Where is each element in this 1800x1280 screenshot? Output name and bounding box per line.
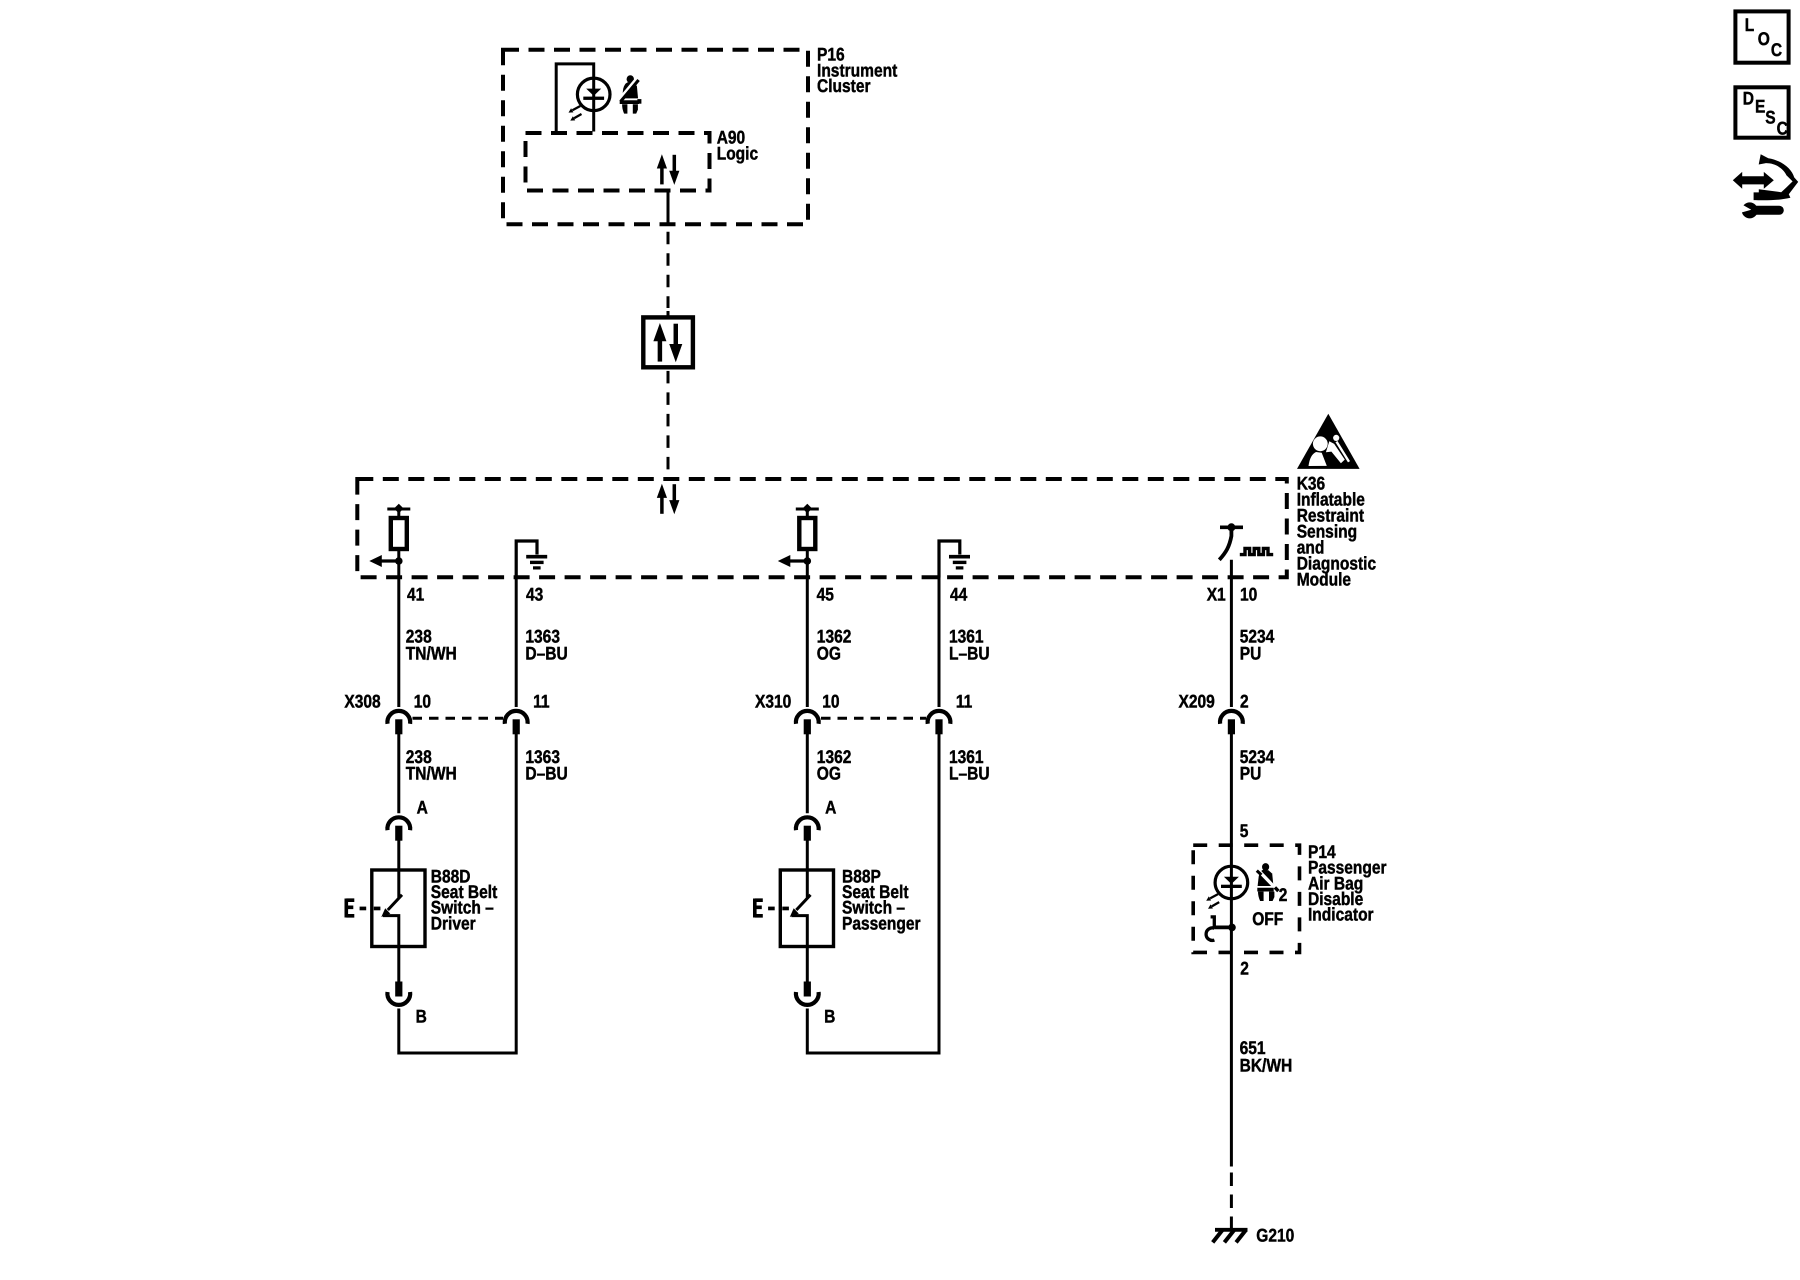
svg-text:X308: X308: [344, 691, 380, 712]
dashed wire to G210: [1230, 1173, 1233, 1230]
svg-text:2: 2: [1240, 958, 1249, 979]
wire 1363 D-BU X308-11 to loop: [399, 733, 516, 1053]
svg-text:Cluster: Cluster: [817, 75, 871, 96]
svg-text:A: A: [417, 797, 428, 818]
wire LED cathode into A90 logic: [592, 78, 595, 131]
svg-text:BK/WH: BK/WH: [1240, 1055, 1293, 1076]
ground symbol pin 43: [516, 541, 547, 578]
svg-text:G210: G210: [1256, 1224, 1294, 1245]
connector A of B88D: [387, 817, 410, 840]
connector X308 pin 11: [505, 711, 528, 734]
LOC nav box: [1735, 11, 1788, 62]
svg-text:10: 10: [1240, 583, 1257, 604]
splice hook symbol in P14: [1206, 917, 1236, 941]
seat belt switch B88D: [346, 870, 425, 947]
svg-text:X310: X310: [755, 691, 791, 712]
svg-text:41: 41: [407, 583, 424, 604]
serial data wire dashed P16 to gateway: [667, 232, 670, 308]
svg-text:10: 10: [414, 691, 431, 712]
serial data arrows in A90: [657, 154, 680, 185]
connector B of B88D: [387, 982, 410, 1005]
svg-text:Driver: Driver: [431, 912, 476, 933]
svg-text:Passenger: Passenger: [842, 912, 921, 933]
P14 passenger air bag disable indicator dashed box: [1193, 845, 1299, 952]
wire A90 to P16 edge solid: [667, 191, 670, 226]
serial data wire dashed gateway to K36: [667, 371, 670, 478]
belt disable icon with slash: [1257, 863, 1279, 901]
wire conn A to B88P: [806, 840, 809, 870]
svg-text:O: O: [1758, 28, 1770, 49]
svg-text:B: B: [416, 1006, 427, 1027]
wire 651 BK/WH P14 to ground: [1230, 954, 1233, 1167]
wire 1361 L-BU pin44 to X310-11: [938, 578, 941, 708]
svg-text:Module: Module: [1297, 568, 1351, 589]
ground G210: [1213, 1230, 1248, 1243]
seat belt indicator LED: [569, 78, 611, 121]
connector X310 pin 10: [796, 711, 819, 734]
wire 1362 OG X310-10 to conn A: [806, 733, 809, 813]
seat belt telltale icon: [619, 75, 642, 113]
connector mating dashed line X310: [821, 717, 926, 720]
wire loop from LED anode into A90 logic: [556, 64, 594, 132]
svg-text:10: 10: [822, 691, 839, 712]
serial data arrows in K36: [657, 484, 680, 515]
svg-text:L–BU: L–BU: [949, 643, 990, 664]
wire through LED to box bottom: [1230, 866, 1233, 954]
svg-text:L: L: [1745, 14, 1754, 35]
wire 5234 PU X209-2 to P14: [1230, 733, 1233, 866]
wire 5234 PU X1-10 to X209-2: [1230, 560, 1233, 707]
passenger belt sense driver pin 45: [778, 504, 819, 567]
svg-text:S: S: [1765, 106, 1775, 127]
seat belt switch B88P: [755, 870, 834, 947]
svg-text:X1: X1: [1207, 583, 1226, 604]
wire B88P to conn B: [806, 947, 809, 984]
svg-text:E: E: [1755, 95, 1765, 116]
svg-text:Indicator: Indicator: [1308, 904, 1374, 925]
DESC nav box: [1735, 87, 1788, 138]
svg-text:11: 11: [956, 691, 972, 712]
instrument cluster P16 dashed box: [503, 50, 808, 225]
jump navigation icon arrow and wrench: [1733, 154, 1798, 218]
svg-text:B: B: [824, 1006, 835, 1027]
svg-text:D–BU: D–BU: [525, 643, 567, 664]
logic module A90 dashed box: [526, 133, 710, 191]
svg-text:Logic: Logic: [717, 142, 758, 163]
wire 1363 D-BU pin43 to X308-11: [515, 578, 518, 708]
svg-text:D–BU: D–BU: [525, 763, 567, 784]
svg-text:X209: X209: [1178, 691, 1214, 712]
svg-text:OG: OG: [817, 643, 841, 664]
wire 238 TN/WH X308-10 to conn A: [397, 733, 400, 813]
connector X310 pin 11: [928, 711, 951, 734]
connector X209 pin 2: [1220, 711, 1243, 734]
wire 238 TN/WH pin41 to X308-10: [397, 561, 400, 707]
svg-text:45: 45: [817, 583, 834, 604]
airbag warning triangle: [1297, 414, 1360, 469]
svg-text:OFF: OFF: [1252, 908, 1283, 929]
wire conn A to B88D: [397, 840, 400, 870]
connector A of B88P: [796, 817, 819, 840]
connector X308 pin 10: [387, 711, 410, 734]
svg-text:PU: PU: [1240, 763, 1262, 784]
wire 1362 OG pin45 to X310-10: [806, 561, 809, 707]
ground symbol pin 44: [939, 541, 970, 578]
svg-text:PU: PU: [1240, 643, 1262, 664]
wire B88D to conn B: [397, 947, 400, 984]
connector mating dashed line X308: [413, 717, 504, 720]
svg-text:OG: OG: [817, 763, 841, 784]
svg-text:11: 11: [533, 691, 549, 712]
driver belt sense driver pin 41: [369, 504, 410, 567]
svg-text:2: 2: [1279, 884, 1288, 905]
svg-text:TN/WH: TN/WH: [406, 763, 457, 784]
connector B of B88P: [796, 982, 819, 1005]
svg-text:43: 43: [526, 583, 543, 604]
K36 module dashed box: [357, 479, 1287, 577]
svg-text:TN/WH: TN/WH: [406, 643, 457, 664]
svg-text:C: C: [1777, 117, 1788, 138]
svg-text:5: 5: [1240, 820, 1249, 841]
svg-text:C: C: [1771, 39, 1782, 60]
svg-text:D: D: [1743, 88, 1754, 109]
wire 1361 L-BU X310-11 to loop: [807, 733, 939, 1053]
svg-text:L–BU: L–BU: [949, 763, 990, 784]
svg-text:2: 2: [1240, 691, 1249, 712]
indicator driver switch pin X1-10: [1219, 523, 1273, 560]
off indicator LED in P14: [1206, 866, 1248, 909]
svg-text:A: A: [825, 797, 836, 818]
svg-text:44: 44: [950, 583, 968, 604]
serial data arrows in gateway box: [653, 323, 682, 362]
serial data gateway box: [643, 317, 693, 367]
